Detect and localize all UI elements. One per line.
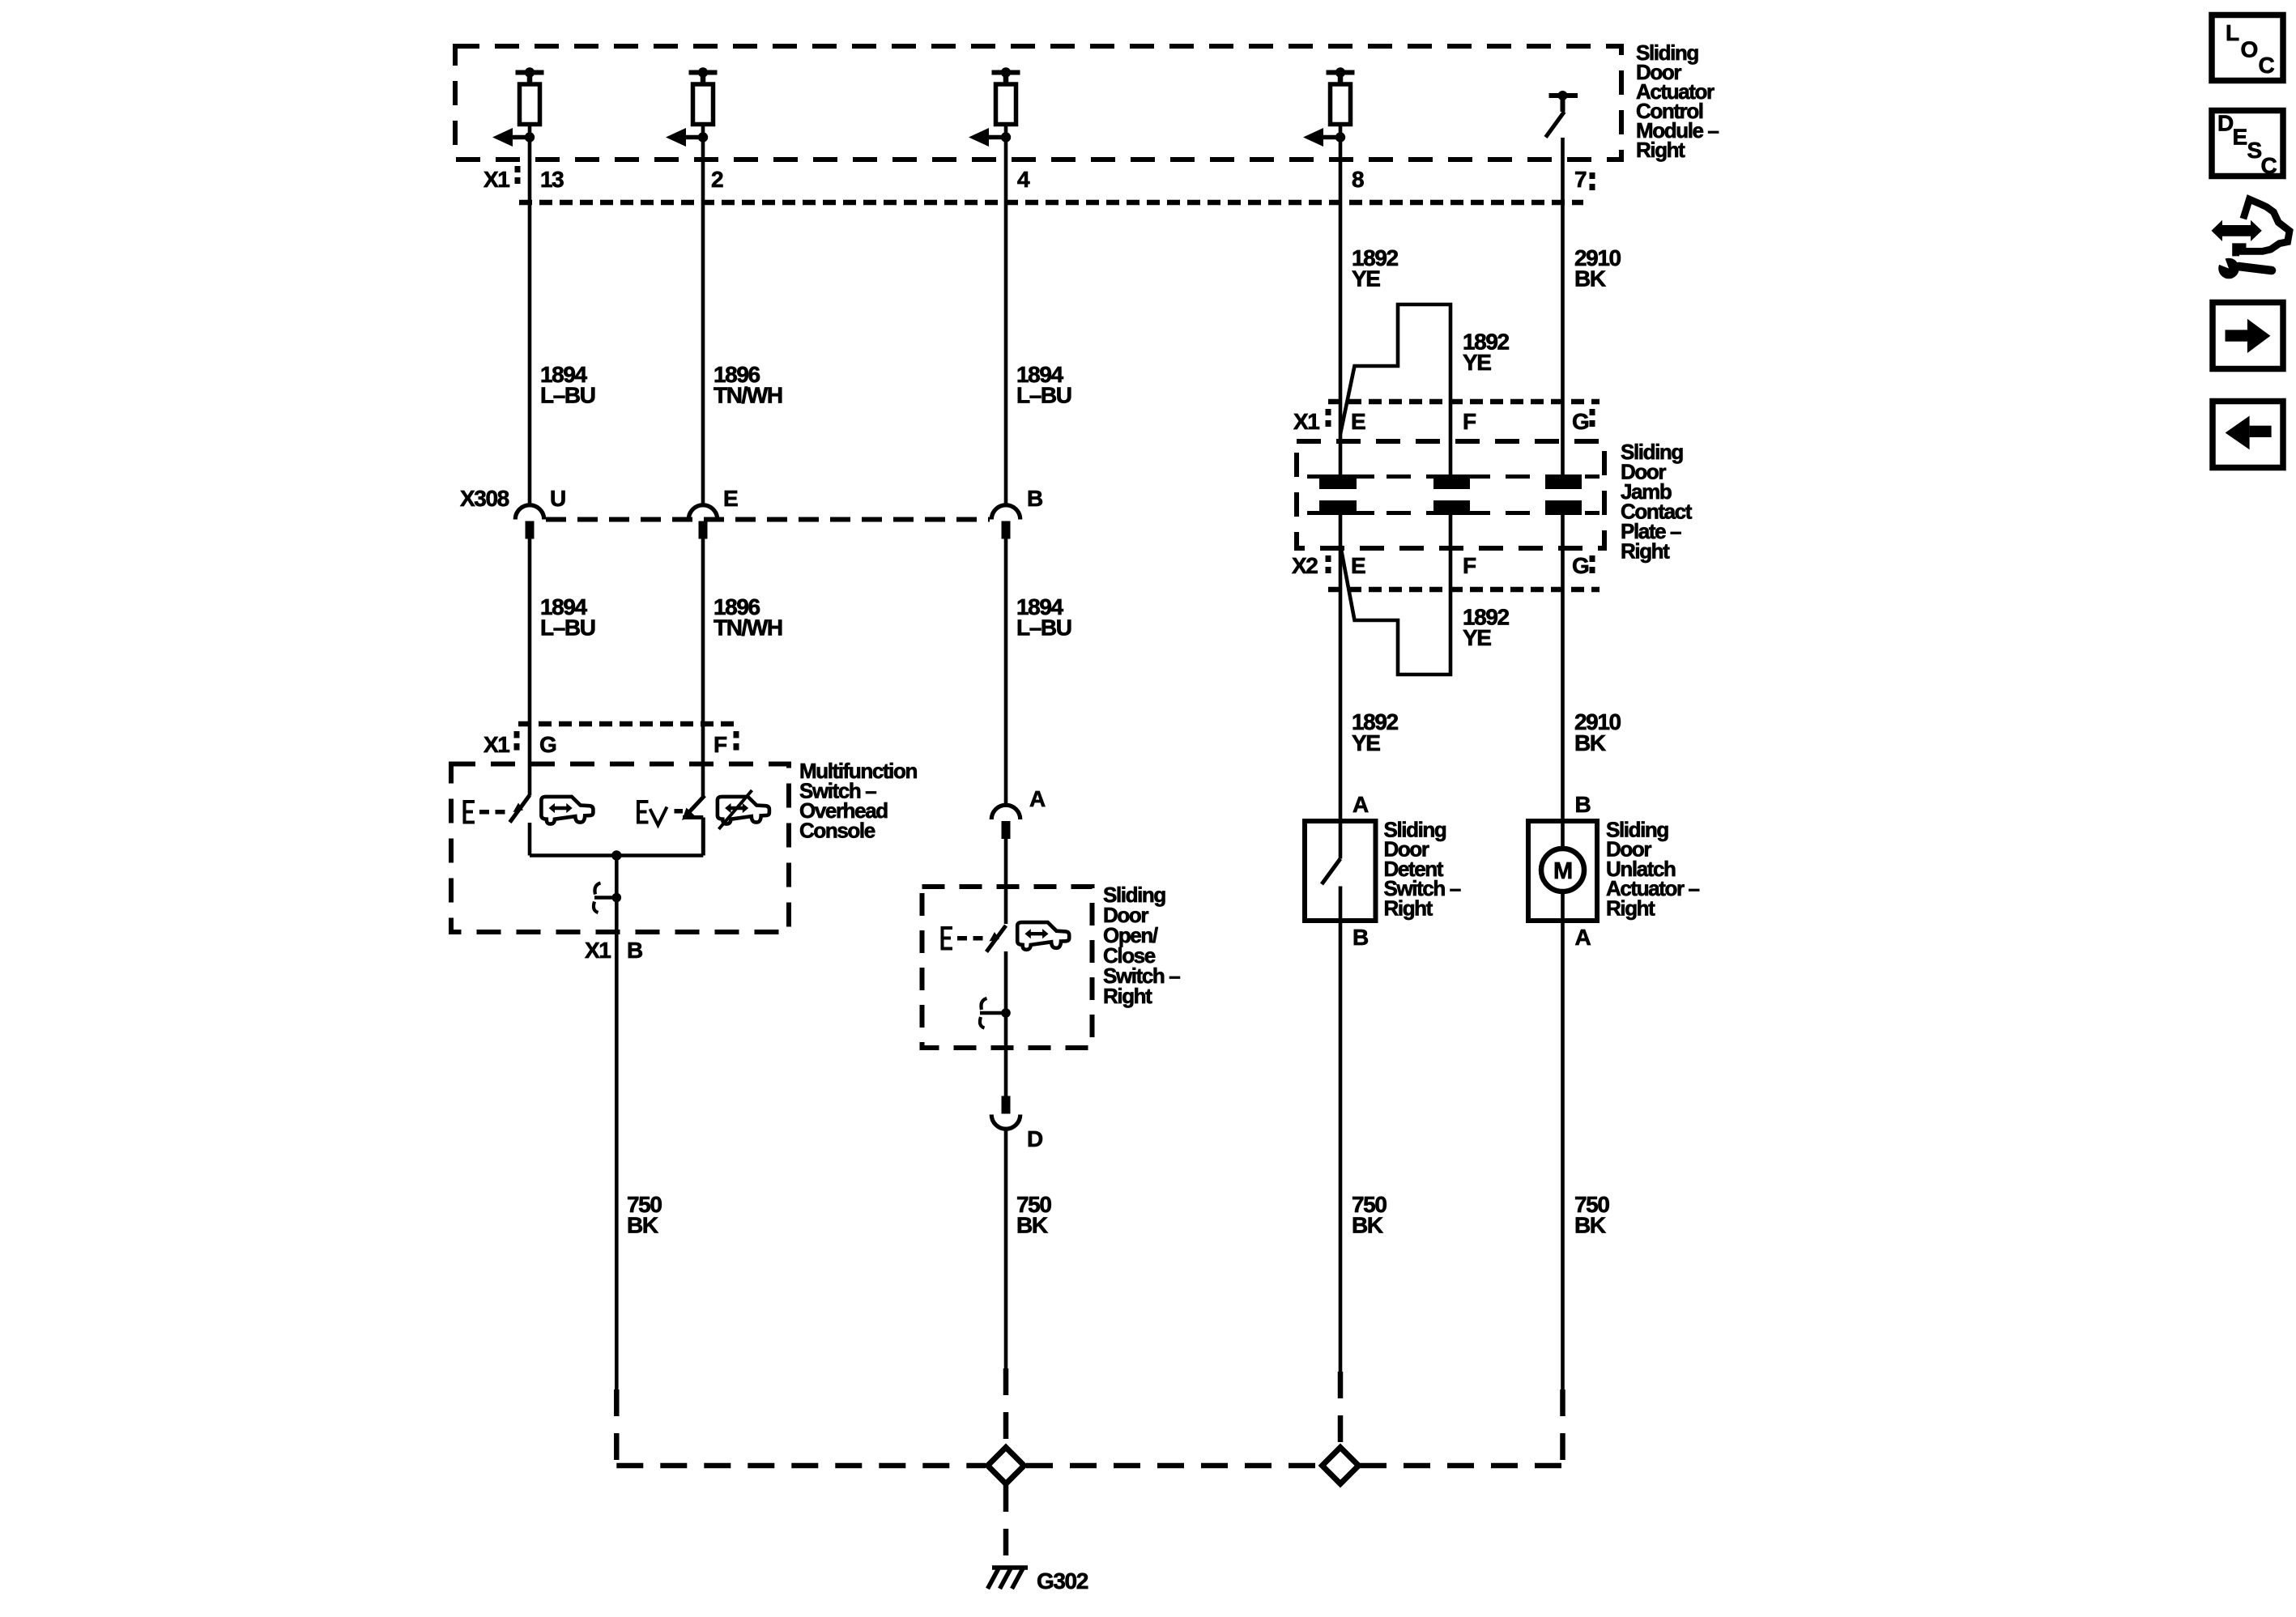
switch S7 inside module (pin 7) [1546,96,1578,138]
svg-text:Right: Right [1103,984,1152,1008]
E-check position symbol for S2 [637,800,683,824]
wire 750 BK (unlatch actuator to splice) [1561,921,1565,1389]
svg-text:U: U [550,486,565,511]
connector X308 pin B [991,505,1020,520]
svg-text:4: 4 [1017,167,1030,192]
svg-text:TN/WH: TN/WH [714,615,782,640]
svg-text:B: B [627,938,642,963]
icon arrow-right box [2213,303,2283,369]
svg-text:F: F [1463,409,1476,434]
contact bar E lower [1319,500,1357,511]
car icon 2 with slash (door locked) [718,797,769,824]
wire label 2910 BK (to unlatch actuator) [1574,709,1621,755]
svg-text:X2: X2 [1292,553,1318,578]
svg-text:Right: Right [1621,539,1670,564]
svg-text:Console: Console [799,819,875,843]
wire label 1892 YE [1352,245,1399,291]
svg-text:A: A [1575,925,1591,950]
svg-text:2: 2 [711,167,723,192]
contact bar G upper [1545,474,1582,479]
svg-text:E: E [1351,409,1365,434]
slash over car 2 [719,790,752,829]
svg-text:G302: G302 [1037,1568,1088,1594]
svg-text:E: E [2233,125,2247,150]
contact bar F upper [1433,474,1470,479]
wire 1896 TN/WH (X308 E to MFS F) [701,539,705,797]
ground net dashed bus [614,1389,620,1468]
svg-text:E: E [1351,553,1365,578]
common rail in MFS [530,853,703,857]
label: Sliding Door Jamb Contact Plate - Right [1621,440,1693,564]
label: Multifunction Switch - Overhead Console [799,759,917,843]
svg-text:X1: X1 [585,938,611,963]
arrow out of R1 [510,135,530,140]
wire from junction down [615,856,619,1390]
pin labels X1 E F G [1293,409,1589,434]
svg-text:L–BU: L–BU [1016,615,1071,640]
svg-text:Right: Right [1606,896,1655,920]
connector X1 of multifunction switch: dotted line and brackets [518,721,735,727]
svg-text:BK: BK [1574,1213,1606,1238]
wire label 1892 YE (upper F) [1463,330,1510,376]
label: Sliding Door Unlatch Actuator - Right [1606,818,1700,921]
sliding door detent switch box [1305,821,1376,921]
jamb pictograph step (lower) [1340,512,1450,674]
wire 1892 YE (pin8 down to jamb X1-E) [1339,125,1343,479]
svg-text:E: E [723,486,738,511]
icon LOC box [2212,15,2283,81]
label: Sliding Door Open/Close Switch - Right [1103,883,1180,1008]
svg-text:B: B [1575,792,1591,817]
wire 2910 BK (pin7 down to jamb X1-G) [1561,138,1565,479]
svg-text:D: D [1027,1126,1043,1151]
wire label 1896 TN/WH [714,362,782,408]
svg-text:D: D [2217,111,2234,136]
svg-text:X1: X1 [483,167,509,192]
wire label 1892 YE (lower F) [1463,604,1510,650]
wire label 750 BK [1352,1192,1387,1238]
svg-text:L–BU: L–BU [540,383,595,408]
svg-text:YE: YE [1463,625,1491,650]
wire 1894 L-BU (X308 B to switch A) [1004,539,1008,806]
switch S4 (detent) [1339,821,1343,859]
splice diamond S302-2 [1323,1448,1359,1484]
svg-text:BK: BK [627,1213,658,1238]
wire label 750 BK (column 1) [627,1192,662,1238]
car icon 3 [1017,922,1069,950]
wire 750 BK (detent switch to splice) [1339,921,1343,1372]
svg-text:BK: BK [1574,730,1606,755]
jamb pictograph step (upper) [1340,304,1450,479]
svg-text:YE: YE [1352,266,1380,291]
connector X308 dashed line [546,517,990,522]
E position symbol for S1 [463,800,505,824]
resistor R3 (pin 4 driver) [992,73,1020,125]
svg-text:X1: X1 [483,732,509,757]
svg-text:G: G [539,732,556,757]
svg-text:Right: Right [1636,138,1685,162]
svg-text:F: F [1463,553,1476,578]
svg-text:X308: X308 [460,486,509,511]
wire A into open/close switch [1004,839,1008,924]
contact gap dashed lines [1307,474,1600,479]
wire 1894 L-BU (pin4 to X308 B) [1004,125,1008,506]
wire 1894 L-BU (X308 U to MFS G) [528,539,532,796]
pin labels X1 13 2 4 8 7 [483,167,1587,192]
svg-text:X1: X1 [1293,409,1319,434]
resistor R2 (pin 2 driver) [689,73,718,125]
svg-text:A: A [1352,792,1369,817]
E position symbol for S3 [941,926,983,951]
svg-text:BK: BK [1016,1213,1048,1238]
wire label 1892 YE (to detent switch) [1352,709,1399,755]
svg-text:F: F [714,732,727,757]
icon arrow-left box [2213,402,2283,468]
contact bar G lower [1545,500,1582,511]
resistor R4 (pin 8 driver) [1327,73,1355,125]
svg-text:C: C [2261,153,2277,178]
svg-text:TN/WH: TN/WH [714,383,782,408]
wire label 1894 L-BU [540,594,595,640]
svg-text:S: S [2247,138,2262,163]
wire label 2910 BK [1574,245,1621,291]
wire label 750 BK [1016,1192,1051,1238]
svg-text:G: G [1572,553,1589,578]
connector X1 of module: dotted line and brackets [519,200,1583,206]
wire 750 BK from D down [1004,1130,1008,1369]
wire label 1896 TN/WH [714,594,782,640]
sliding door unlatch actuator box [1528,821,1597,921]
contact bar E upper [1319,474,1374,479]
detent symbol 2 [980,1011,1006,1015]
wire label 1894 L-BU [540,362,595,408]
wire label 750 BK [1574,1192,1609,1238]
svg-text:13: 13 [540,167,564,192]
svg-text:BK: BK [1352,1213,1383,1238]
wire G through plate [1561,513,1565,821]
switch S2 in MFS (contact F) with arrowhead [688,796,705,815]
wire 1894 L-BU (pin13 to X308 U) [528,125,532,506]
svg-text:YE: YE [1463,350,1491,375]
connector D (inverted) [1002,1096,1011,1114]
arrow out of R2 [684,135,703,140]
switch S1 in MFS (open/close contact G) [510,795,530,823]
pin labels X1 G F [483,732,727,757]
wire 1896 TN/WH (pin2 to X308 E) [701,125,705,506]
wire label 1894 L-BU [1016,362,1071,408]
svg-text:M: M [1553,858,1572,884]
connector X308 pin E [688,505,718,520]
arrow out of R3 [986,135,1006,140]
motor M1 [1561,821,1565,849]
wire label 1894 L-BU [1016,594,1071,640]
svg-text:BK: BK [1574,266,1606,291]
svg-text:L–BU: L–BU [1016,383,1071,408]
wire E below plate [1339,511,1343,821]
label: Sliding Door Detent Switch - Right [1384,818,1461,921]
svg-text:G: G [1572,409,1589,434]
svg-text:O: O [2241,37,2258,62]
svg-text:Right: Right [1384,896,1433,920]
icon DESC box [2212,111,2283,177]
connector X2 of jamb plate: dotted line and brackets [1328,587,1600,593]
pin labels X1 B below MFS [585,938,642,963]
svg-text:B: B [1352,925,1368,950]
svg-text:A: A [1029,786,1046,811]
svg-text:L: L [2226,20,2239,45]
arrow out of R4 [1321,135,1340,140]
sliding door open/close switch box (dashed) [922,887,1093,1048]
connector X308 pin U [515,505,544,520]
splice diamond S302-1 [988,1448,1024,1484]
module U1: Sliding Door Actuator Control Module - Right (dashed box) [455,46,1621,160]
detent symbol 1 [594,896,616,900]
svg-text:7: 7 [1574,167,1587,192]
svg-text:L–BU: L–BU [540,615,595,640]
svg-text:YE: YE [1352,730,1380,755]
icon door-adjust with wrench [2212,199,2290,279]
multifunction switch box (dashed) [451,764,789,933]
svg-text:C: C [2259,53,2275,78]
pin labels X2 E F G [1292,553,1589,578]
svg-text:B: B [1027,486,1042,511]
jamb contact plate dashed box [1297,441,1604,548]
contact bar F lower [1433,500,1470,511]
connector X1 of jamb plate: dotted line and brackets [1328,399,1600,405]
car icon 1 (door moves) [541,797,593,824]
resistor R1 (pin 13 driver) [516,73,544,125]
label: Sliding Door Actuator Control Module - Right [1636,40,1719,162]
svg-text:8: 8 [1352,167,1364,192]
junction node [611,850,621,860]
switch S3 (open/close) [986,926,1006,952]
ground G302 symbol [988,1568,1029,1589]
